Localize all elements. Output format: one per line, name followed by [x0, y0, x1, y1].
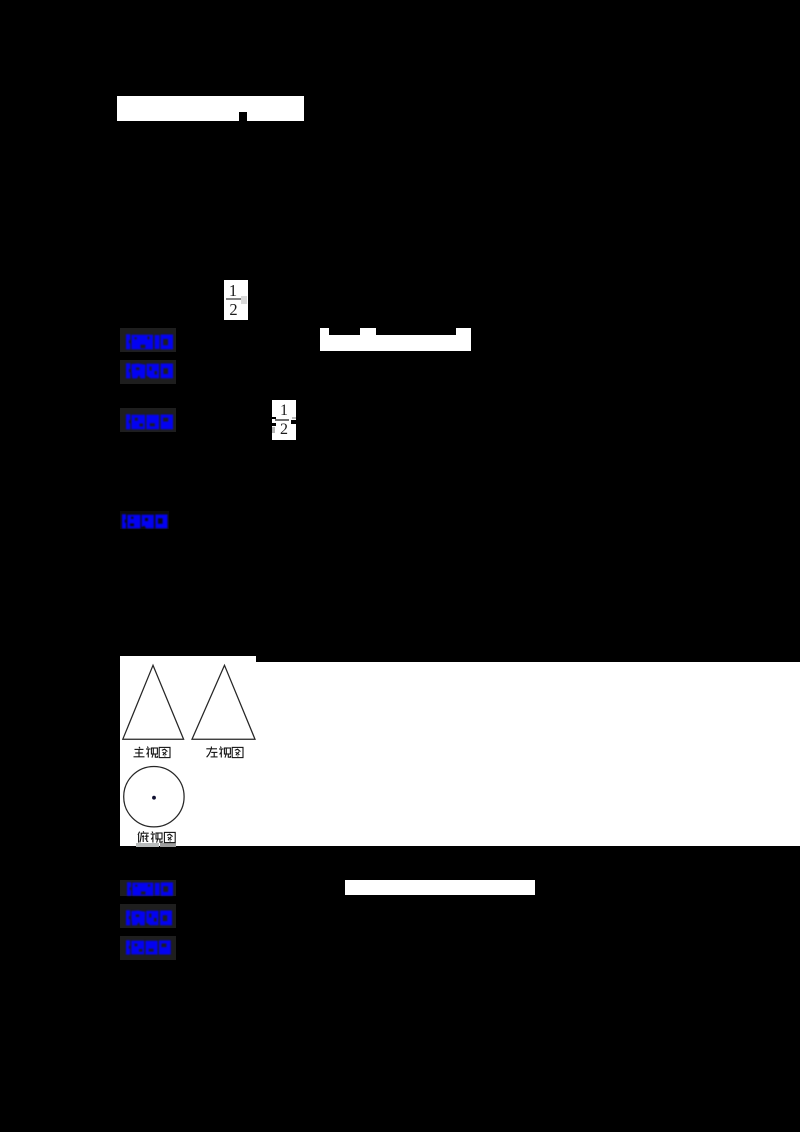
- title black notch (comma): [239, 112, 247, 121]
- blue row b3: 【解答】: [120, 936, 176, 960]
- figure band: [120, 656, 256, 662]
- blue row 2: 【分析】: [120, 360, 176, 384]
- blue row 1: 【考点】: [120, 328, 176, 352]
- blue row b1: 【考点】: [120, 880, 176, 896]
- fraction box A: [224, 280, 248, 320]
- blue row 4: 【点评】 (no box): [120, 511, 169, 529]
- front-view triangle: [122, 665, 183, 739]
- 俯视图 label: [137, 831, 177, 844]
- 主视图: [134, 746, 145, 756]
- fraction box B: [272, 400, 296, 440]
- title highlight bar: [117, 96, 304, 121]
- blue row 3: 【解答】: [120, 408, 176, 432]
- top-view circle: [123, 766, 183, 826]
- fraction bar A: [226, 298, 241, 300]
- equals fragments left of B: [271, 417, 276, 420]
- gray strip under 俯视图: [136, 843, 159, 847]
- gray tab A: [241, 296, 247, 304]
- fragments right of B: [292, 417, 296, 419]
- blue row b2: 【分析】: [120, 904, 176, 928]
- side-view triangle: [192, 665, 255, 739]
- white highlighted answer strip (top): [320, 335, 471, 351]
- view labels: [133, 746, 253, 759]
- white highlighted answer strip (bottom): [345, 880, 535, 895]
- 左视图: [206, 746, 217, 757]
- circle center dot: [152, 795, 156, 799]
- fraction bar B: [275, 419, 290, 421]
